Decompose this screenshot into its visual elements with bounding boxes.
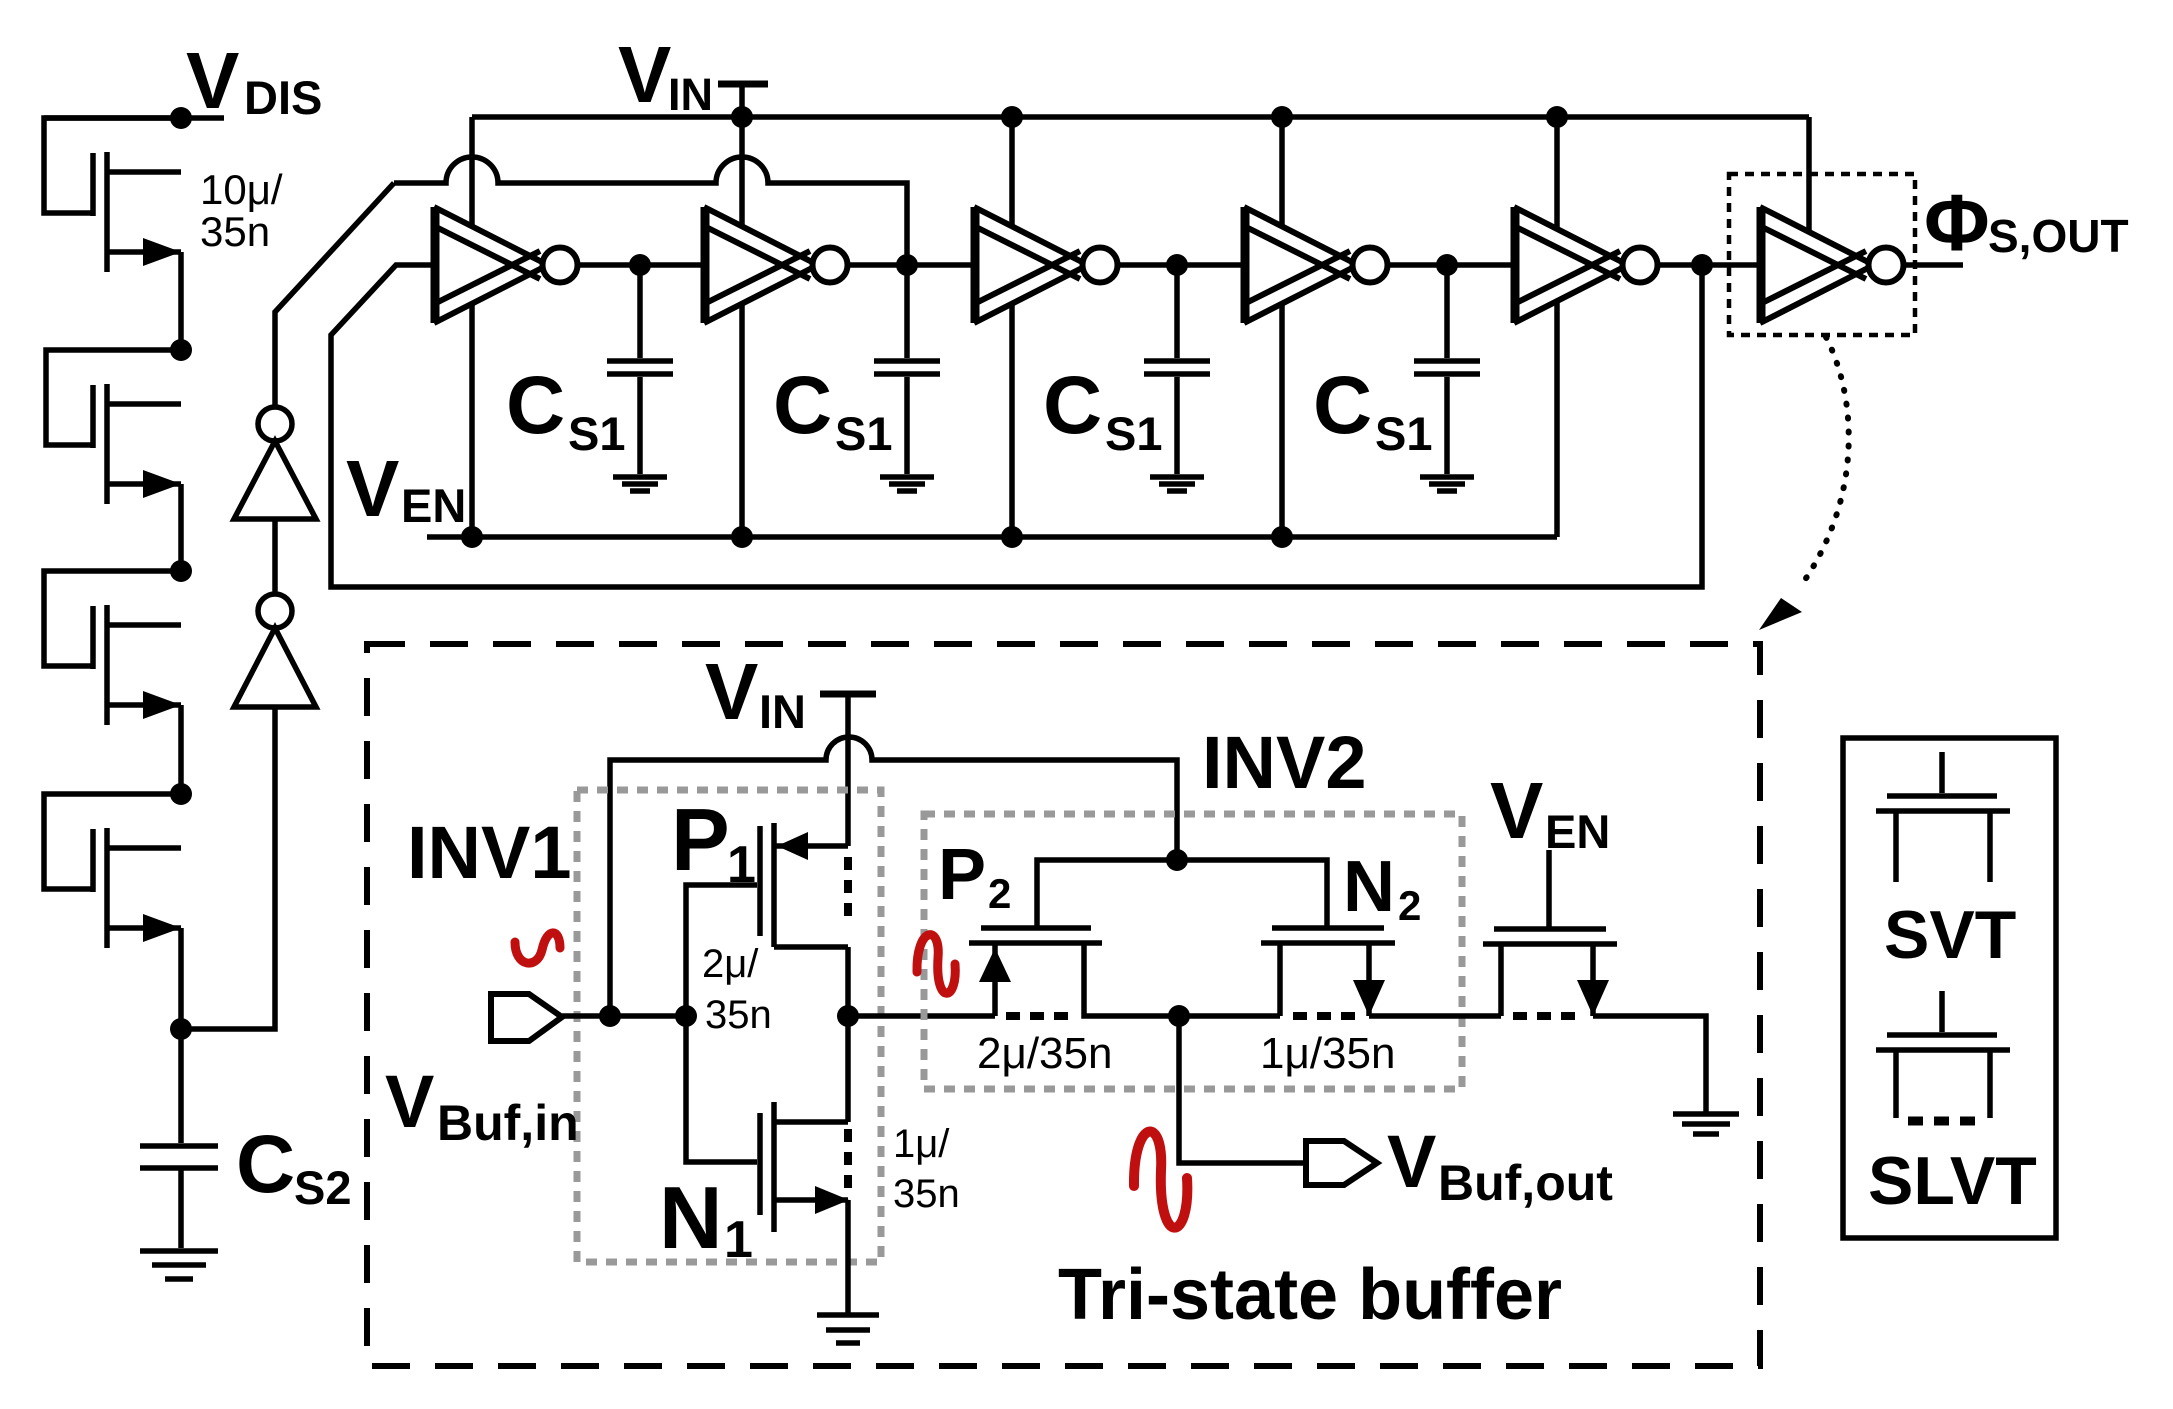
wire node to inverter chain input [181, 707, 275, 1029]
svg-text:V: V [186, 36, 239, 125]
node VDIS label [186, 36, 322, 125]
wire VIN drop stage2 [739, 117, 745, 227]
node VEN junction stage4 [1271, 526, 1293, 548]
svg-text:35n: 35n [893, 1172, 960, 1216]
wire stage3 out to stage4 in [1120, 262, 1244, 268]
wire M2 source to M3 drain [178, 484, 184, 571]
node VEN junction stage1 [461, 526, 483, 548]
svg-text:S1: S1 [568, 407, 626, 460]
svg-text:C: C [1043, 360, 1102, 451]
svg-text:C: C [1313, 360, 1372, 451]
label CS1 b [773, 360, 893, 460]
svg-text:V: V [618, 30, 671, 119]
wire VIN drop stage5 [1554, 117, 1560, 230]
node VIN rail junction stage5 [1546, 106, 1568, 128]
wire stage3 enable drop [1009, 304, 1015, 537]
pin VBuf,in input [491, 994, 562, 1041]
label VBuf,in [385, 1060, 579, 1151]
transistor M3 (diode-connected) [44, 571, 181, 725]
wire injection line with hops to stage2 output [394, 157, 907, 265]
svg-text:2: 2 [1398, 882, 1421, 929]
wire VIN rail [472, 114, 1809, 120]
wire VIN distribution with hop [610, 737, 1177, 1016]
svg-text:P: P [938, 835, 986, 915]
label N2 [1343, 847, 1421, 929]
node stage1 output [629, 254, 651, 276]
svg-text:S1: S1 [835, 407, 893, 460]
wire VIN drop stage1 [469, 117, 475, 227]
wire stage1 out to stage2 in [580, 262, 704, 268]
transistor P1 (PMOS 2u/35n SLVT) [686, 823, 848, 1162]
label INV2 [1202, 721, 1367, 804]
annotation squiggle P2 (red) [917, 935, 955, 994]
wire stage5 out to output buffer [1660, 262, 1760, 268]
wire stage4 enable drop [1279, 304, 1285, 537]
label P2 [938, 835, 1011, 917]
wire INV2 output to VBuf,out [1179, 1016, 1306, 1163]
svg-text:35n: 35n [200, 208, 270, 255]
ground enable transistor [1673, 1114, 1739, 1134]
label VEN (top) [346, 444, 466, 533]
wire P1 drain to N1 drain [845, 947, 851, 1122]
box INV2 (gray dotted) [924, 814, 1462, 1089]
svg-text:1: 1 [724, 1211, 753, 1269]
annotation squiggle output (red) [1134, 1132, 1187, 1228]
wire VIN drop output buffer [1806, 117, 1812, 233]
wire N1 source to ground [845, 1200, 851, 1313]
transistor N2 (NMOS 1u/35n SLVT) [1179, 928, 1395, 1016]
inverter I1 (upper, V_DIS chain) [234, 407, 316, 519]
annotation squiggle small (red) [515, 933, 560, 963]
box output buffer (dotted) [1729, 174, 1915, 335]
label P1 [671, 790, 756, 894]
wire M1 source to M2 drain [178, 252, 184, 350]
node CS2 top junction [170, 1018, 192, 1040]
svg-text:S1: S1 [1375, 407, 1433, 460]
wire output to PHI_S,OUT [1906, 262, 1963, 268]
wire VIN drop stage4 [1279, 117, 1285, 227]
label N2 size 1u/35n [1260, 1029, 1395, 1078]
capacitor CS1 a [607, 265, 673, 491]
svg-text:IN: IN [759, 685, 806, 738]
svg-text:N: N [659, 1168, 723, 1267]
wire stage5 enable drop [1554, 302, 1560, 537]
svg-text:S1: S1 [1105, 407, 1163, 460]
svg-text:N: N [1343, 847, 1395, 927]
node stage4 output [1436, 254, 1458, 276]
label CS1 d [1313, 360, 1433, 460]
node VDIS junction [170, 107, 192, 129]
wire INV2 gate to N2 gate [1177, 860, 1327, 928]
buffer stage3 (tri-state) [974, 207, 1118, 323]
node VIN rail junction stage3 [1001, 106, 1023, 128]
box INV1 (gray dotted) [577, 790, 881, 1262]
svg-text:1μ/35n: 1μ/35n [1260, 1029, 1395, 1078]
node INV1 output [837, 1005, 859, 1027]
label VEN (detail) [1490, 766, 1610, 858]
svg-text:IN: IN [668, 69, 713, 120]
buffer stage1 (tri-state) [434, 207, 578, 323]
wire enable transistor to ground [1593, 1016, 1706, 1112]
svg-text:C: C [773, 360, 832, 451]
node VIN rail junction stage4 [1271, 106, 1293, 128]
label INV1 [407, 811, 572, 894]
transistor M4 (diode-connected) [44, 794, 181, 948]
wire M4 source to CS2 node [178, 928, 184, 1143]
wire VDIS top [44, 115, 224, 121]
node VIN rail junction stage2 [731, 106, 753, 128]
label P1 size 2u/35n [702, 942, 772, 1037]
node input junction [599, 1005, 621, 1027]
node stage3 output [1166, 254, 1188, 276]
svg-text:V: V [385, 1060, 434, 1143]
label VBuf,out [1387, 1120, 1613, 1211]
transistor M2 (diode-connected) [46, 350, 181, 504]
svg-text:V: V [346, 444, 399, 533]
label P2 size 2u/35n [977, 1029, 1112, 1078]
svg-text:Buf,in: Buf,in [437, 1095, 579, 1151]
buffer stage2 (tri-state) [704, 207, 848, 323]
capacitor CS1 b [874, 265, 940, 491]
node VIN label (top) [618, 30, 713, 120]
svg-text:1μ/: 1μ/ [893, 1122, 950, 1166]
wire VEN rail [427, 534, 1557, 540]
label CS1 a [506, 360, 626, 460]
svg-text:EN: EN [1545, 805, 1610, 858]
svg-text:V: V [1387, 1120, 1436, 1203]
node M2 drain junction [170, 339, 192, 361]
label SVT [1884, 897, 2016, 973]
arrow dotted callout to detail box [1759, 337, 1849, 630]
node M3 drain junction [170, 560, 192, 582]
wire N2 to enable transistor [1369, 1013, 1501, 1019]
wire stage2 out to stage3 in [850, 262, 974, 268]
node INV2 gate junction [1166, 849, 1188, 871]
svg-text:2: 2 [988, 870, 1011, 917]
wire CS2 to ground [178, 1168, 184, 1248]
inverter I2 (lower, V_DIS chain) [234, 594, 316, 707]
node INV2 output [1168, 1005, 1190, 1027]
wire VIN drop stage3 [1009, 117, 1015, 227]
svg-text:INV1: INV1 [407, 811, 572, 894]
power VIN tap (detail) [820, 694, 876, 846]
ground CS2 [140, 1251, 218, 1279]
label N1 [659, 1168, 753, 1269]
transistor N1 (NMOS 1u/35n SLVT) [760, 1102, 849, 1232]
node M4 drain junction [170, 783, 192, 805]
svg-text:S2: S2 [294, 1161, 352, 1214]
svg-text:SLVT: SLVT [1868, 1143, 2037, 1219]
svg-text:INV2: INV2 [1202, 721, 1367, 804]
svg-text:Tri-state buffer: Tri-state buffer [1058, 1255, 1562, 1335]
label SLVT [1868, 1143, 2037, 1219]
svg-text:C: C [506, 360, 565, 451]
node stage5 output [1691, 254, 1713, 276]
node VEN junction stage2 [731, 526, 753, 548]
transistor P2 (PMOS 2u/35n SLVT) [969, 928, 1179, 1016]
transistor legend SLVT [1876, 991, 2010, 1121]
svg-text:SVT: SVT [1884, 897, 2016, 973]
wire stage4 out to stage5 in [1390, 262, 1514, 268]
wire INV2 gate to P2 gate [1037, 860, 1177, 928]
svg-text:S,OUT: S,OUT [1988, 210, 2129, 262]
node gate junction INV1 [675, 1005, 697, 1027]
buffer output stage (tri-state) [1760, 207, 1904, 323]
transistor ME (enable NMOS SLVT) [1483, 850, 1617, 1016]
box legend [1843, 738, 2056, 1238]
wire I1 output to feedback line (diagonal) [275, 183, 394, 405]
node stage2 output [896, 254, 918, 276]
wire M3 source to M4 drain [178, 705, 184, 794]
power VIN tap (top) [718, 84, 768, 117]
capacitor CS2 [140, 1146, 218, 1168]
ground N1 [817, 1315, 879, 1343]
svg-text:35n: 35n [705, 993, 772, 1037]
buffer stage4 (tri-state) [1244, 207, 1388, 323]
label CS2 [236, 1119, 352, 1214]
svg-text:10μ/: 10μ/ [200, 166, 283, 213]
wire input node row [562, 1013, 686, 1019]
label 10u/35n [200, 166, 283, 255]
capacitor CS1 c [1144, 265, 1210, 491]
box tri-state buffer detail (dashed) [367, 644, 1760, 1366]
transistor M1 (diode-connected, 10u/35n) [44, 118, 181, 272]
svg-text:V: V [1490, 766, 1543, 855]
wire ring feedback stage5 output to stage1 input [331, 265, 1702, 587]
svg-text:2μ/: 2μ/ [702, 942, 759, 986]
label CS1 c [1043, 360, 1163, 460]
transistor legend SVT [1876, 752, 2010, 882]
svg-text:V: V [705, 647, 758, 736]
svg-text:2μ/35n: 2μ/35n [977, 1029, 1112, 1078]
pin VBuf,out output [1306, 1141, 1377, 1185]
svg-text:EN: EN [401, 479, 466, 532]
buffer stage5 (tri-state) [1514, 207, 1658, 323]
wire stage1 enable drop [469, 304, 475, 537]
capacitor CS1 d [1414, 265, 1480, 491]
label VIN (detail) [705, 647, 806, 738]
svg-text:Φ: Φ [1924, 178, 1990, 267]
wire stage2 enable drop [739, 304, 745, 537]
svg-text:DIS: DIS [244, 71, 322, 124]
label N1 size 1u/35n [893, 1122, 960, 1216]
wire I2 output to I1 input [272, 519, 278, 592]
svg-text:C: C [236, 1119, 295, 1210]
label PHI_S,OUT [1924, 178, 2129, 267]
svg-text:Buf,out: Buf,out [1438, 1155, 1613, 1211]
node VEN junction stage3 [1001, 526, 1023, 548]
svg-text:P: P [671, 790, 730, 889]
label Tri-state buffer [1058, 1255, 1562, 1335]
